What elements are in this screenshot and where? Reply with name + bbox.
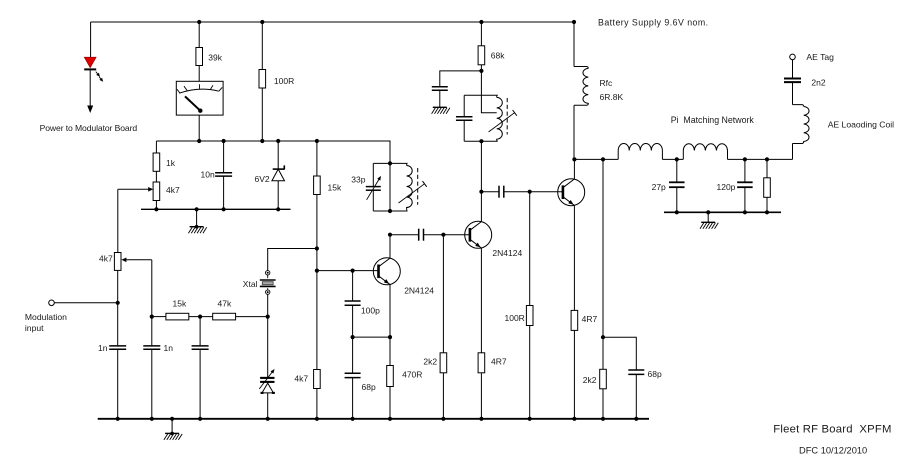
capacitor 2n2 [784,79,801,83]
capacitor 1n second [143,346,160,349]
wire 68k bottom [480,65,482,71]
wire 120p top [744,159,746,182]
wire bypass branch [440,71,482,87]
wire 15k top [316,141,318,176]
wire L1 riser right [661,151,663,160]
svg-text:68k: 68k [491,51,505,61]
wire 15k node to base node [316,249,318,271]
resistor 15k vertical [314,176,321,195]
junction xtal wire [315,246,319,250]
svg-text:Power to Modulator Board: Power to Modulator Board [40,123,138,133]
wire Rfc top [573,22,575,67]
capacitor 120p [737,182,753,187]
wire tank2 bottom [464,140,497,142]
pot 4k7 upper wiper arrow [118,187,153,192]
svg-text:1n: 1n [164,343,174,353]
svg-text:47k: 47k [218,298,232,308]
svg-text:4R7: 4R7 [491,357,507,367]
svg-text:2n2: 2n2 [811,78,825,88]
junction top rail / 100R [260,20,264,24]
junction bottom rail ground stub [170,417,174,421]
resistor 470R [387,366,394,387]
capacitor coupling 1 [419,229,424,241]
wire modulation input [54,302,117,304]
junction bottom rail 4R7 b [572,417,576,421]
wire wiper2 down [151,260,153,317]
wire xtal bottom [267,294,269,316]
wire Rfc bottom [573,105,575,159]
wire 100p bottom [352,305,354,337]
resistor 2k2 b [600,369,607,389]
potentiometer 4k7 upper body [153,182,160,201]
wire AE tag to 2n2 [792,60,794,79]
svg-text:15k: 15k [328,182,342,192]
wire coupling2 left [481,191,499,193]
wire 100R bottom [261,88,263,141]
wire coupling1 right [424,234,470,236]
svg-text:Modulation: Modulation [25,312,67,322]
wire bypass to ground [439,90,441,107]
resistor 4R7 a [478,353,485,373]
svg-text:2k2: 2k2 [583,375,597,385]
svg-text:4k7: 4k7 [294,374,308,384]
junction bottom rail 1n input [116,417,120,421]
svg-text:6R.8K: 6R.8K [600,92,624,102]
junction bottom rail 2k2 b [601,417,605,421]
wire varactor bottom [267,393,269,419]
junction coupling1 right [441,233,445,237]
junction tank1 top [388,161,392,165]
wire Q3 collector [573,159,575,178]
capacitor tank2 [456,117,473,120]
wire wiper down to pot2 [117,189,119,252]
crystal Xtal [260,271,276,295]
wire 4k7 to rail [316,389,318,419]
wire rail2 to tank1 [156,141,390,163]
wire ground stub A [196,209,198,226]
junction collector node [572,157,576,161]
wire tank2 feed tap [481,71,496,113]
junction rail2 6V2 [276,139,280,143]
junction 100p bottom [351,335,355,339]
junction rail2 meter [197,139,201,143]
wire 68pb bottom [635,374,637,418]
potentiometer 4k7 input body [114,253,121,271]
junction Q2 collector tap [479,190,483,194]
wire tank2 left bottom [463,120,465,141]
wire Rout bottom [766,197,768,212]
wire Q1 emitter [389,285,391,366]
resistor 100R top [259,70,266,89]
wire 10n top [223,141,225,173]
wire 2k2b bottom [602,389,604,419]
svg-text:1k: 1k [166,158,176,168]
junction rail2b 6V2 [276,207,280,211]
LED light arrows [96,72,103,82]
wire coupling1 left [390,234,419,236]
wire coupling2 right [504,191,563,193]
wire down to 4k7 [316,271,318,370]
junction bottom rail 2k2 a [441,417,445,421]
wire 1k top [155,141,157,153]
wire 2k2b top [602,337,604,369]
inductor pi L1 [618,143,662,150]
wire 100Rb top [529,192,531,306]
wire 15k to xtal node [316,195,318,249]
wire L2 riser left [682,151,684,160]
junction tank1 bottom [388,209,392,213]
capacitor 68p left [345,373,361,377]
resistor 39k [196,48,203,66]
junction bottom rail 68p b [634,417,638,421]
wire mid row [353,336,390,338]
inductor AE loading coil [793,105,810,144]
junction rail2b ground [195,207,199,211]
wire Q2 collector [480,141,482,221]
resistor 1k [153,153,160,171]
junction pi rail Rout [765,210,769,214]
resistor 15k horizontal [166,313,189,320]
wire row right [236,316,268,318]
wire xtal top [268,249,317,271]
junction bottom rail varactor [266,417,270,421]
transistor Q3 [558,179,585,206]
svg-text:120p: 120p [717,182,736,192]
svg-text:10n: 10n [201,170,215,180]
core tank2 dashed [506,98,508,135]
wire cap3 bottom [199,349,201,419]
core tank1 dashed [417,168,419,205]
junction top rail Rfc [572,20,576,24]
svg-text:6V2: 6V2 [255,174,270,184]
capacitor 68p b [628,370,644,374]
wire meter to rail2 [198,115,200,141]
arrow tank2 adjustable [489,110,517,132]
wire 2k2a top [442,235,444,353]
varactor diode [259,369,275,393]
zener diode 6V2 [272,165,285,180]
capacitor 1n input [109,346,126,349]
junction tank2 bottom [479,139,483,143]
capacitor 10n [215,173,232,176]
wire to modulator board with arrow [87,69,93,113]
junction 120p top [743,157,747,161]
pot 4k7 input wiper arrow [121,258,151,263]
svg-text:33p: 33p [351,174,365,184]
inductor Rfc choke [574,67,588,106]
wire tank1 top [373,162,407,164]
wire 68p1 top [352,337,354,373]
wire L1 riser left [617,151,619,160]
wire 1n2 top [151,317,153,346]
junction rail2b 10n [222,207,226,211]
junction row 15k left [150,315,154,319]
junction emitter mid [388,335,392,339]
junction pi rail ground [706,210,710,214]
svg-text:2N4124: 2N4124 [404,286,434,296]
wire ground stub B [171,419,173,434]
wire varactor top [267,317,269,378]
wire Q1 base row [317,270,379,272]
svg-text:100p: 100p [361,306,380,316]
wire tank2 left top [463,95,465,117]
junction bottom rail 1n second [150,417,154,421]
svg-text:2k2: 2k2 [423,357,437,367]
svg-text:input: input [25,323,44,333]
junction bottom rail cap3 [198,417,202,421]
resistor 68k [478,46,485,65]
wire ground rail bottom [98,418,649,420]
wire pot to rail2b [155,201,157,210]
wire 470R bottom [389,387,391,419]
junction feedback node [601,157,605,161]
junction Rout top [765,157,769,161]
wire tank2 top [464,94,497,96]
svg-text:4k7: 4k7 [99,254,113,264]
wire pi ground rail [664,211,781,213]
svg-text:Rfc: Rfc [600,78,614,88]
wire 68pb branch [603,337,636,370]
junction row right [266,315,270,319]
wire 27p top [676,159,678,182]
junction rail2 15k [315,139,319,143]
svg-text:15k: 15k [173,298,187,308]
wire battery supply rail [91,21,574,23]
wire 100p top [352,271,354,301]
wire pot2 bottom [117,270,119,346]
wire 1n2 bottom [151,349,153,419]
wire long feedback [602,159,604,337]
svg-text:Pi Matching Network: Pi Matching Network [671,115,755,125]
wire collector node row [574,158,618,160]
transistor Q2 2N4124 [465,221,492,248]
resistor 47k [213,313,236,320]
meter M1 [176,81,223,115]
capacitor 100p [345,301,361,305]
ground C [432,107,450,114]
wire cap3 top [199,317,201,346]
junction bottom rail 4R7 a [479,417,483,421]
wire Q1 collector [389,235,391,258]
junction coupling1 left [388,233,392,237]
svg-text:68p: 68p [648,369,662,379]
svg-text:39k: 39k [208,53,222,63]
junction 100p top [351,269,355,273]
inductor pi L2 [683,144,727,151]
transistor Q1 2N4124 [373,258,400,285]
junction bottom rail 4k7 [315,417,319,421]
wire tank1 left top [372,163,374,186]
inductor tank2 coil [497,95,503,141]
wire row left [152,316,166,318]
wire 68k top [480,22,482,46]
wire tank1 feed [389,163,391,211]
junction coupling2 right [528,190,532,194]
wire 39k top [198,22,200,48]
wire LED anode [90,22,92,58]
svg-text:Xtal: Xtal [243,279,258,289]
junction rail2b pot [154,207,158,211]
terminal AE tag [790,54,796,60]
svg-text:4R7: 4R7 [582,314,598,324]
terminal modulation input [49,300,55,306]
junction 2k2b node [601,335,605,339]
junction 27p top [675,157,679,161]
wire AE coil to pi [792,144,794,160]
wire 6V2 bottom [277,181,279,210]
LED D1 red [84,57,96,69]
svg-text:470R: 470R [402,370,422,380]
wire 39k to meter [198,66,200,82]
svg-text:2N4124: 2N4124 [492,248,522,258]
wire ground stub D [707,212,709,222]
wire tank1 left bottom [372,190,374,211]
wire 100Rb bottom [529,326,531,419]
arrow tank1 adjustable [399,181,427,203]
svg-text:100R: 100R [274,76,294,86]
junction bottom rail 100R b [528,417,532,421]
wire pi out row [728,158,793,160]
junction pi rail 27p [675,210,679,214]
wire 27p bottom [676,187,678,212]
svg-text:4k7: 4k7 [166,185,180,195]
svg-text:Battery Supply 9.6V nom.: Battery Supply 9.6V nom. [598,18,709,28]
junction bottom rail 470R [388,417,392,421]
capacitor 33p variable [366,187,381,191]
resistor 4R7 b [571,310,578,330]
wire 120p bottom [744,187,746,212]
junction rail2 100R [260,139,264,143]
wire L2 riser right [727,151,729,160]
junction bottom rail 68p [351,417,355,421]
junction pi rail 120p [743,210,747,214]
capacitor coupling 2 [499,186,504,198]
capacitor bypass [432,87,448,90]
svg-text:DFC 10/12/2010: DFC 10/12/2010 [799,446,867,456]
svg-text:68p: 68p [362,382,376,392]
wire 6V2 top [277,141,279,169]
junction rail2 10n [222,139,226,143]
wire 100R top [261,22,263,70]
junction row mid [198,315,202,319]
ground B [164,432,182,440]
junction top rail 68k [479,20,483,24]
wire Q3 emitter [573,206,575,311]
wire tank1 bottom [373,210,407,212]
svg-text:AE Tag: AE Tag [806,52,834,62]
wire Q2 emitter [480,248,482,353]
wire 2k2a bottom [442,373,444,419]
svg-text:100R: 100R [505,313,525,323]
resistor 4k7 lower [314,370,321,389]
wire 1k to pot [155,171,157,182]
arrow 33p variable [367,176,381,200]
wire row mid [189,316,213,318]
svg-text:Fleet RF Board XPFM: Fleet RF Board XPFM [773,424,891,436]
ground A [188,225,206,233]
svg-text:27p: 27p [652,182,666,192]
capacitor unlabeled [192,346,209,349]
wire 4R7b bottom [573,330,575,418]
resistor 100R b [526,306,533,326]
junction mod input [116,301,120,305]
wire 2n2 to coil [792,82,794,105]
junction 68k node [479,69,483,73]
capacitor 27p [669,182,685,187]
wire 68p1 bottom [352,378,354,419]
wire rail2b [141,208,291,210]
junction top rail / 39k [197,20,201,24]
resistor output unlabeled [764,178,771,198]
wire 1n to rail [117,349,119,419]
svg-text:1n: 1n [98,343,108,353]
wire Rout top [766,159,768,177]
ground D [700,222,718,229]
inductor tank1 coil [407,163,413,211]
wire 4R7a bottom [480,373,482,419]
wire L1 to L2 [662,158,683,160]
junction Q1 base node [315,269,319,273]
svg-text:AE Loaoding Coil: AE Loaoding Coil [828,120,894,130]
wire 10n bottom [223,176,225,209]
resistor 2k2 a [440,353,447,373]
